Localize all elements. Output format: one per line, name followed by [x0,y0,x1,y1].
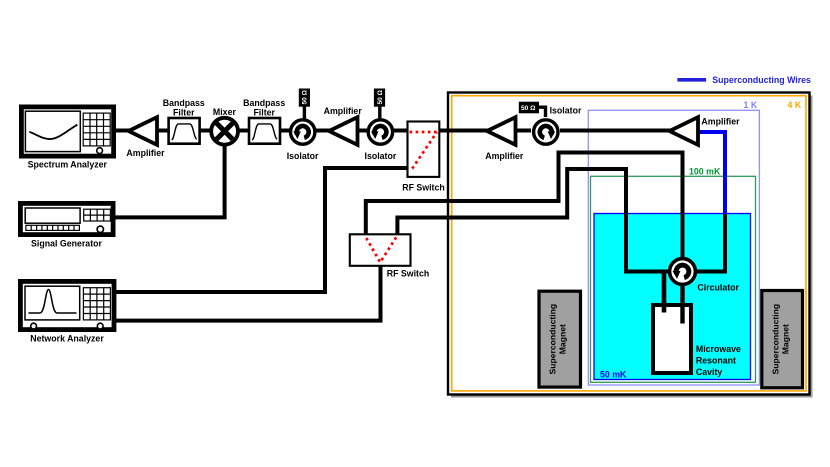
svg-text:Resonant: Resonant [696,356,736,366]
svg-text:50 Ω: 50 Ω [377,89,384,104]
svg-text:Magnet: Magnet [780,324,790,354]
svg-text:Superconducting: Superconducting [770,304,780,375]
svg-text:RF Switch: RF Switch [387,268,430,278]
svg-text:50 mK: 50 mK [600,370,627,380]
svg-text:Filter: Filter [253,108,275,118]
svg-text:Isolator: Isolator [365,151,397,161]
svg-text:Amplifier: Amplifier [324,106,363,116]
svg-text:Superconducting Wires: Superconducting Wires [712,75,811,85]
svg-text:Bandpass: Bandpass [243,98,285,108]
svg-text:Isolator: Isolator [550,105,582,115]
svg-text:Mixer: Mixer [213,107,237,117]
svg-text:Amplifier: Amplifier [485,151,524,161]
svg-text:Network Analyzer: Network Analyzer [30,334,104,344]
svg-text:Superconducting: Superconducting [548,304,558,375]
svg-text:Spectrum Analyzer: Spectrum Analyzer [28,160,108,170]
svg-text:Microwave: Microwave [696,344,741,354]
svg-text:50 Ω: 50 Ω [521,105,536,112]
svg-text:Bandpass: Bandpass [163,98,205,108]
svg-text:Filter: Filter [173,108,195,118]
svg-text:4 K: 4 K [788,100,802,110]
svg-text:Amplifier: Amplifier [701,117,740,127]
svg-text:RF Switch: RF Switch [402,183,445,193]
svg-text:50 Ω: 50 Ω [302,89,309,104]
svg-text:Magnet: Magnet [558,324,568,354]
svg-text:Isolator: Isolator [287,151,319,161]
svg-text:Cavity: Cavity [696,367,723,377]
svg-text:Circulator: Circulator [697,283,739,293]
svg-text:1 K: 1 K [744,100,758,110]
svg-text:Amplifier: Amplifier [126,148,165,158]
svg-text:Signal Generator: Signal Generator [31,239,102,249]
svg-text:100 mK: 100 mK [689,167,721,177]
